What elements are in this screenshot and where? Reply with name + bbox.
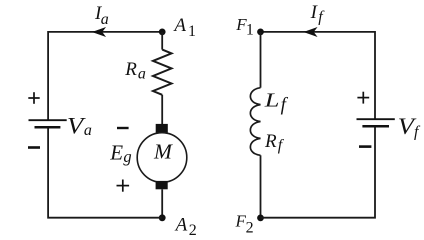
label A1 (172, 15, 196, 40)
node A1 (159, 29, 166, 36)
current arrow Ia (pointing left on top wire) (93, 28, 105, 37)
label Vf (398, 114, 421, 140)
label F1 (235, 15, 254, 38)
svg-text:a: a (101, 11, 109, 28)
polarity plus (Va) (28, 92, 39, 104)
label Ra (124, 59, 146, 82)
label A2 (174, 214, 197, 239)
polarity minus (Va) (28, 146, 40, 149)
polarity plus (Eg, bottom) (117, 180, 130, 192)
label If (310, 2, 326, 25)
svg-text:1: 1 (188, 23, 196, 40)
svg-text:1: 1 (246, 21, 254, 38)
svg-text:A: A (172, 15, 186, 36)
wire: node A1 to resistor Ra (161, 32, 163, 50)
inductor Lf / field winding (coil, Lf and Rf in series) (250, 88, 260, 156)
svg-text:E: E (109, 141, 123, 165)
wire: right loop, Vf positive terminal up and across top to node F1 (261, 32, 376, 119)
motor M armature (circle with brush squares) (137, 124, 187, 189)
battery Va (29, 120, 67, 127)
wire: field coil to node F2 (260, 155, 262, 217)
svg-text:A: A (174, 214, 188, 235)
label Lf (264, 89, 289, 115)
wire: motor bottom brush to node A2 (161, 189, 163, 217)
svg-text:M: M (153, 139, 173, 163)
svg-text:R: R (264, 131, 277, 152)
label Ia (94, 3, 109, 28)
label M (inside motor circle) (153, 139, 173, 163)
label Eg (109, 141, 131, 166)
node A2 (159, 214, 166, 221)
battery Vf (357, 119, 395, 126)
label F2 (235, 211, 254, 236)
label Rf (264, 131, 285, 154)
svg-text:a: a (84, 122, 92, 139)
wire: left loop, Va positive terminal up and across top to node A1 (48, 32, 162, 120)
resistor Ra (153, 50, 172, 95)
label Va (67, 114, 92, 139)
svg-text:L: L (264, 89, 280, 111)
svg-text:g: g (123, 147, 131, 166)
polarity minus (Eg, top) (117, 127, 129, 129)
node F1 (257, 29, 264, 36)
svg-text:a: a (138, 66, 146, 83)
svg-text:2: 2 (189, 222, 197, 238)
wire: resistor Ra to motor top brush (161, 95, 163, 125)
wire: node F1 to field coil (260, 32, 262, 88)
svg-text:R: R (124, 59, 137, 80)
current arrow If (pointing left on top wire) (304, 28, 316, 37)
wire: bottom of left loop, node A2 back to Va negative terminal (48, 127, 162, 218)
polarity minus (Vf) (359, 145, 371, 148)
svg-text:2: 2 (246, 219, 254, 236)
node F2 (257, 215, 264, 222)
polarity plus (Vf) (357, 92, 369, 104)
wire: bottom of right loop, node F2 back to Vf negative terminal (261, 126, 376, 218)
